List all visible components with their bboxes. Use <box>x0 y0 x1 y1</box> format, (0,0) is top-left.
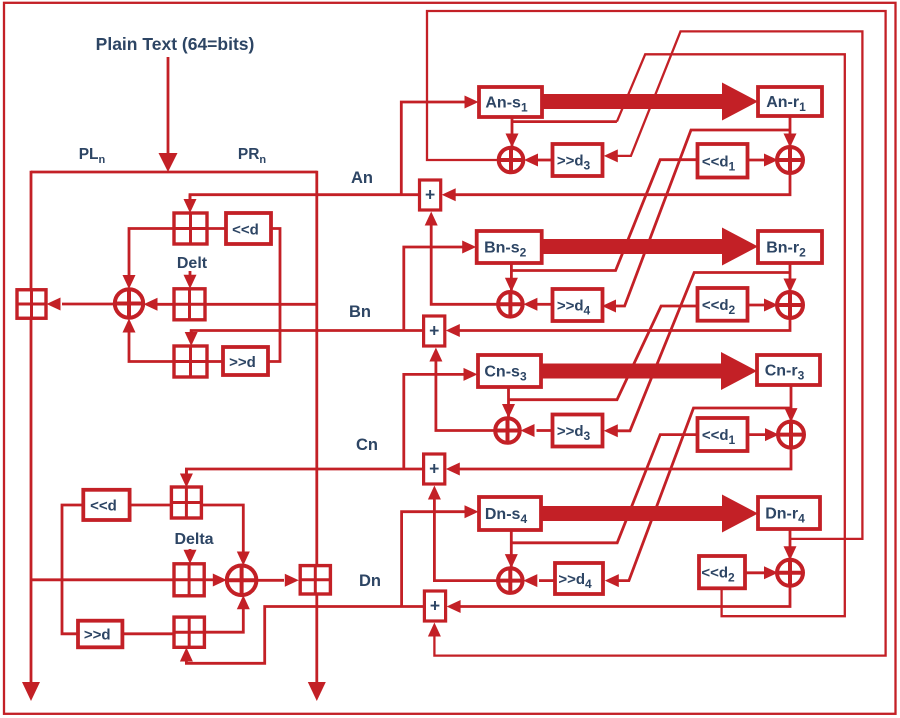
svg-text:+: + <box>429 459 439 479</box>
svg-text:Cn: Cn <box>356 436 378 454</box>
svg-text:<<d: <<d <box>90 498 117 515</box>
svg-text:Bn: Bn <box>349 303 371 321</box>
svg-text:>>d: >>d <box>84 627 111 644</box>
svg-text:>>d: >>d <box>229 354 256 371</box>
svg-text:Delt: Delt <box>177 255 208 272</box>
svg-text:An: An <box>351 169 373 187</box>
svg-text:Plain Text (64=bits): Plain Text (64=bits) <box>96 34 255 54</box>
svg-text:Delta: Delta <box>174 531 213 548</box>
svg-text:Dn: Dn <box>359 572 381 590</box>
svg-text:+: + <box>429 321 439 341</box>
svg-text:<<d: <<d <box>232 222 259 239</box>
svg-text:+: + <box>425 185 435 205</box>
svg-text:+: + <box>430 596 440 616</box>
